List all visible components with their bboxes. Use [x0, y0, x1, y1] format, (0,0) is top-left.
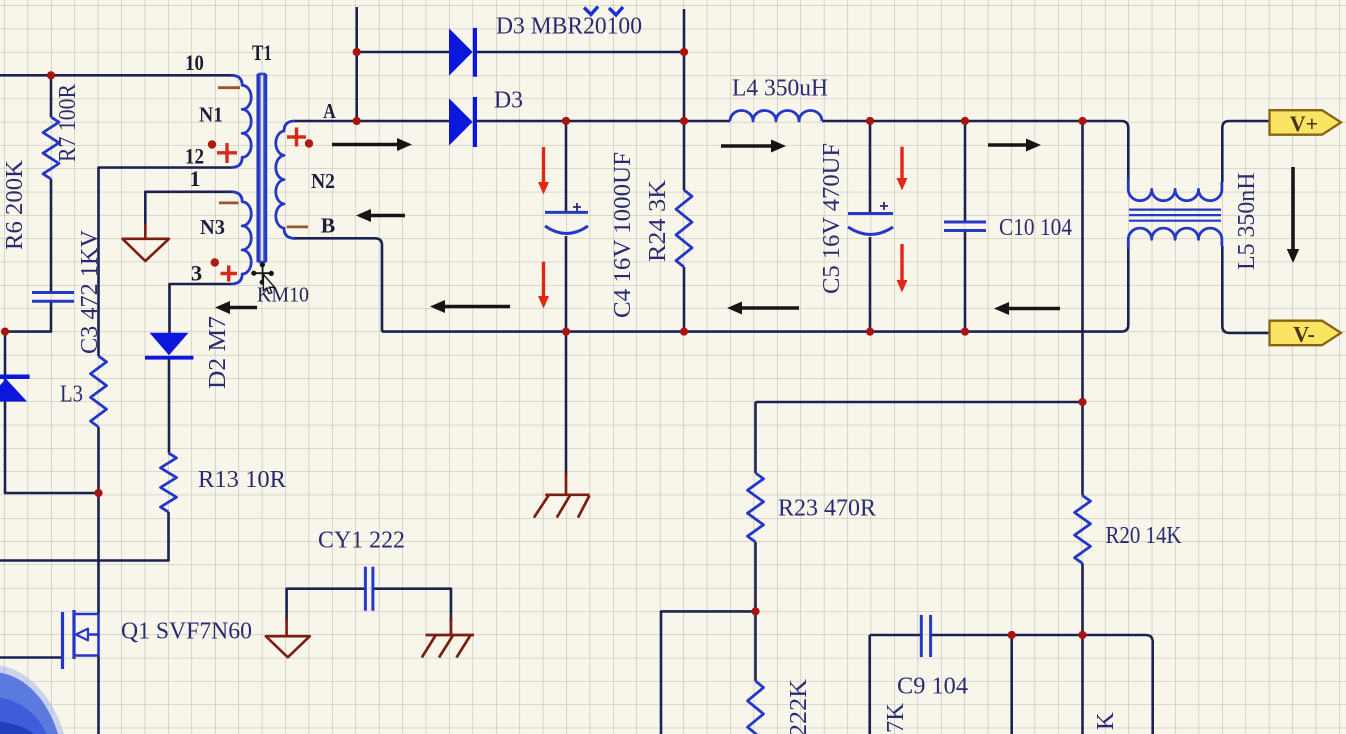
node junction x1011	[1008, 631, 1016, 639]
node A junction	[353, 117, 361, 125]
diode D2 M7	[145, 333, 193, 360]
wire R7 top stem	[50, 75, 53, 117]
polarity plus N1	[217, 143, 237, 163]
blue blob watermark outer	[0, 673, 58, 734]
wire R7 to C3	[50, 179, 53, 293]
node junction C10 top	[961, 117, 969, 125]
svg-text:10: 10	[185, 50, 204, 75]
polarity plus N2	[287, 128, 306, 147]
red arrow C5 bottom	[900, 244, 903, 280]
node junction C4 top	[562, 117, 570, 125]
svg-text:D2 M7: D2 M7	[204, 316, 231, 389]
node junction C5 bottom	[866, 328, 874, 336]
svg-text:K: K	[1092, 712, 1119, 730]
wire rail1 diode to right column	[477, 51, 684, 54]
ground (earth) CY1 left	[266, 618, 310, 657]
svg-text:7K: 7K	[882, 703, 909, 733]
wire x1011 drop	[1010, 635, 1013, 734]
svg-text:L4 350uH: L4 350uH	[732, 75, 828, 102]
node junction x684 rail2	[680, 117, 688, 125]
arrow right after L4	[721, 144, 771, 148]
wire R23 top row	[756, 401, 1083, 404]
wire right column x684 top	[683, 9, 686, 190]
wire L5 to V+ port	[1222, 121, 1269, 182]
svg-text:R13 10R: R13 10R	[198, 466, 287, 493]
node junction R24 bottom	[680, 328, 688, 336]
arrow left bottom 4	[1009, 307, 1060, 311]
wire rail1 top diode row	[357, 51, 449, 54]
red arrow C4 top	[542, 147, 545, 182]
svg-text:D3 MBR20100: D3 MBR20100	[496, 13, 642, 40]
svg-text:N2: N2	[311, 169, 335, 193]
transformer T1 core	[258, 74, 266, 262]
wire CY1 left lead	[287, 589, 366, 621]
plus mark C5	[880, 202, 888, 210]
resistor R7 100R	[43, 117, 59, 179]
ground (earth) at T1 pin 1	[123, 224, 170, 261]
wire left edge column through D-left to Q1 drain row	[5, 332, 99, 493]
wire C4 ground stem	[565, 332, 568, 474]
capacitor CY1 plates	[365, 567, 373, 611]
wire node A from N2	[295, 120, 449, 123]
wire C9 right row	[931, 635, 1153, 734]
ground (chassis) below C4	[534, 472, 590, 518]
polarity dash N1	[218, 86, 240, 89]
wire R23 junction to left drop	[661, 611, 756, 734]
resistor R24 3K	[676, 190, 692, 267]
svg-text:C3 472 1KV: C3 472 1KV	[76, 230, 103, 354]
node junction x1082 y402	[1078, 398, 1086, 406]
arrow left at B	[371, 214, 405, 218]
wire C10 bottom stem	[964, 231, 967, 332]
wire rail1 node A column top	[355, 7, 358, 121]
svg-text:Q1 SVF7N60: Q1 SVF7N60	[121, 618, 252, 645]
node junction at R7 top	[47, 71, 55, 79]
polarity plus N3	[221, 266, 237, 282]
wire C10 top stem	[964, 121, 967, 222]
svg-text:C5 16V 470UF: C5 16V 470UF	[818, 143, 845, 294]
wire T1 pin 1 to ground	[145, 192, 232, 226]
svg-text:T1: T1	[252, 40, 272, 65]
svg-text:R24 3K: R24 3K	[644, 180, 671, 262]
ground (chassis) CY1 right	[422, 618, 474, 658]
svg-text:R7 100R: R7 100R	[54, 83, 81, 162]
wire D2 to R13	[168, 359, 171, 453]
wire feedback column x1082 bottom	[1081, 563, 1084, 734]
transformer T1 winding N1	[231, 75, 251, 167]
capacitor C4 plates	[545, 212, 588, 233]
wire R13 to left edge	[0, 512, 169, 561]
svg-text:KM10: KM10	[257, 283, 309, 307]
wire T1 pin 3 to D2	[170, 284, 233, 333]
blue blob watermark inner	[0, 722, 34, 734]
svg-text:V-: V-	[1293, 321, 1315, 346]
BLACK ARROWS	[215, 138, 1299, 315]
resistor 222K	[748, 681, 764, 734]
transformer T1 core shade	[259, 74, 265, 262]
svg-text:C4 16V 1000UF: C4 16V 1000UF	[609, 152, 636, 318]
transformer T1 winding N3	[231, 192, 251, 284]
wire T1 pin 12 to L3 column	[99, 168, 233, 357]
svg-text:C10 104: C10 104	[999, 214, 1072, 241]
wire top-left rail to T1 pin 10	[0, 74, 232, 77]
svg-text:N3: N3	[200, 215, 225, 239]
arrow left bottom 1	[230, 306, 257, 310]
resistor R23 470R	[748, 473, 764, 542]
check mark 1	[584, 7, 598, 15]
wire rail2 diode D3 to L4	[477, 120, 730, 123]
node junction x1082 rail2	[1078, 117, 1086, 125]
wire rail2 L4 to L5	[822, 121, 1128, 180]
capacitor C3 472 1KV plates	[32, 293, 74, 302]
wire C5 top stem	[869, 121, 872, 214]
svg-text:V+: V+	[1290, 111, 1318, 136]
svg-text:R6 200K: R6 200K	[1, 160, 28, 250]
wire C4 top stem	[565, 121, 568, 212]
svg-text:L5 350nH: L5 350nH	[1233, 173, 1260, 271]
wire R24 bottom	[683, 267, 686, 332]
svg-text:1: 1	[189, 166, 200, 191]
capacitor C5 plates	[848, 214, 893, 235]
diode D3 bottom (MBR20100 b)	[449, 97, 477, 147]
node junction C5 top	[866, 117, 874, 125]
polarity dash B	[287, 225, 308, 228]
inductor L4 350uH	[730, 111, 822, 122]
resistor R13 10R	[161, 453, 177, 512]
red arrow C4 bottom	[542, 262, 545, 296]
wire 222K top stem	[754, 611, 757, 681]
arrow right at A	[332, 143, 397, 147]
node junction rail1 right	[680, 48, 688, 56]
wire C5 bottom stem	[869, 237, 872, 332]
wire L5 to V- port	[1222, 246, 1269, 333]
arrow down at V ports	[1291, 167, 1295, 249]
wire R23 top stem	[754, 402, 757, 473]
svg-text:D3: D3	[494, 87, 523, 114]
RED ARROWS	[538, 147, 908, 309]
capacitor C9 plates	[921, 615, 930, 657]
node junction C10 bottom	[961, 328, 969, 336]
check mark 2	[609, 7, 623, 15]
svg-text:N1: N1	[199, 103, 223, 127]
svg-text:C9 104: C9 104	[897, 673, 968, 700]
port V-	[1270, 321, 1342, 347]
node junction C3 left	[1, 328, 9, 336]
diode at left edge (cut)	[0, 375, 30, 402]
arrow right after C10	[988, 143, 1026, 147]
wire feedback column x1082 top	[1081, 121, 1084, 496]
cursor pointer	[263, 275, 274, 294]
node junction Q1 drain	[94, 489, 102, 497]
blue blob watermark mid	[0, 698, 47, 734]
polarity dot N2	[305, 139, 313, 147]
polarity dot N3	[211, 258, 219, 266]
inductor L3	[91, 356, 107, 427]
svg-text:R23 470R: R23 470R	[778, 495, 877, 522]
choke L5 bottom winding	[1128, 228, 1222, 250]
node junction x1082 y635	[1078, 631, 1086, 639]
cursor crosshair	[251, 262, 274, 285]
node junction rail1 left	[353, 48, 361, 56]
wire C3 bottom to left junction	[5, 301, 51, 331]
wire Q1 gate lead	[0, 656, 63, 659]
arrow left bottom 2	[445, 305, 510, 309]
resistor R20 14K	[1075, 496, 1091, 564]
wire C9 left lead	[870, 635, 921, 734]
transformer T1 winding N2	[276, 121, 295, 238]
wire Q1 source drop	[97, 656, 100, 734]
wire L3 to drain junction	[97, 427, 100, 493]
svg-text:CY1 222: CY1 222	[318, 527, 405, 554]
wire R23 bottom stem	[754, 542, 757, 611]
wire node B to bottom rail and L5	[293, 238, 1128, 331]
svg-text:L3: L3	[60, 381, 83, 408]
blue blob watermark halo	[0, 666, 64, 734]
arrow left bottom 3	[742, 306, 799, 310]
COMPONENT SYMBOLS	[32, 74, 1222, 734]
diode D3 top (MBR20100 a)	[449, 28, 477, 77]
choke L5 core	[1129, 210, 1221, 221]
svg-text:R20 14K: R20 14K	[1106, 522, 1182, 549]
svg-text:A: A	[323, 99, 336, 123]
red arrow C5 top	[900, 147, 903, 178]
node junction R23 bottom	[751, 607, 759, 615]
polarity dash N3	[219, 201, 239, 204]
node junction C4 bottom	[562, 328, 570, 336]
wire drain junction down to Q1	[97, 493, 100, 614]
capacitor C10 plates	[944, 222, 986, 231]
transistor Q1 SVF7N60	[63, 610, 99, 669]
wire C4 bottom stem	[565, 236, 568, 332]
choke L5 top winding	[1128, 178, 1222, 201]
svg-text:3: 3	[191, 261, 202, 286]
port V+	[1270, 110, 1342, 136]
svg-text:B: B	[321, 214, 336, 238]
polarity dot N1	[208, 140, 216, 148]
svg-text:222K: 222K	[785, 679, 812, 734]
svg-text:12: 12	[185, 144, 204, 169]
wire CY1 right lead	[373, 589, 451, 621]
plus mark C4	[573, 203, 581, 211]
